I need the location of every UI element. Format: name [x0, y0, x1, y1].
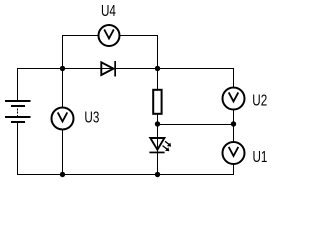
- junction node U3 / bottom rail: [60, 172, 65, 177]
- wire battery bottom lead: [17, 123, 19, 175]
- wire U1 bottom lead: [233, 165, 235, 176]
- wire U3 top lead: [62, 69, 64, 109]
- resistor R1: [153, 90, 161, 114]
- voltmeter U3 V marking: [58, 112, 68, 121]
- LED light arrow 1: [165, 141, 171, 146]
- junction node U2-U1 / middle wire: [231, 121, 236, 126]
- svg-text:U2: U2: [252, 91, 267, 109]
- voltmeter U2 V marking: [229, 92, 239, 101]
- wire U4 right riser: [157, 36, 159, 70]
- junction node resistor-LED / middle wire: [155, 121, 160, 126]
- wire U4 left horizontal: [62, 35, 99, 37]
- wire resistor top lead: [157, 69, 159, 90]
- voltmeter U1 V marking: [229, 147, 239, 156]
- junction node at U4 right riser / top rail: [155, 66, 160, 71]
- wire LED through lead: [157, 124, 159, 175]
- wire middle rail node to meters: [158, 124, 235, 126]
- svg-text:U4: U4: [101, 1, 116, 19]
- junction node at U4 left riser / top rail: [60, 66, 65, 71]
- junction node LED / bottom rail: [155, 172, 160, 177]
- wire U4 right horizontal: [120, 35, 159, 37]
- battery V1: [5, 100, 31, 123]
- wire U1 top lead: [233, 124, 235, 142]
- wire U2 bottom lead: [233, 110, 235, 124]
- voltmeter U1 body: [223, 142, 245, 164]
- voltmeter U4 body: [99, 25, 120, 46]
- voltmeter U4 V marking: [104, 29, 114, 38]
- voltmeter U2 body: [223, 88, 245, 110]
- diode D1 cathode bar: [114, 61, 116, 77]
- wire U4 left riser: [62, 36, 64, 70]
- diode D1 triangle: [101, 62, 113, 75]
- wire resistor bottom lead: [157, 114, 159, 124]
- svg-text:U3: U3: [84, 108, 99, 126]
- svg-text:U1: U1: [253, 147, 268, 165]
- wire U3 bottom lead: [62, 130, 64, 175]
- wire bottom rail: [17, 174, 234, 176]
- wire battery top lead: [17, 69, 19, 101]
- wire top rail: [17, 68, 234, 70]
- wire U2 top lead: [233, 69, 235, 89]
- battery dashed cell link: [17, 109, 19, 116]
- LED light arrow 2: [163, 146, 170, 152]
- LED cathode bar: [149, 152, 164, 154]
- voltmeter U3 body: [52, 108, 74, 130]
- LED triangle: [150, 138, 164, 150]
